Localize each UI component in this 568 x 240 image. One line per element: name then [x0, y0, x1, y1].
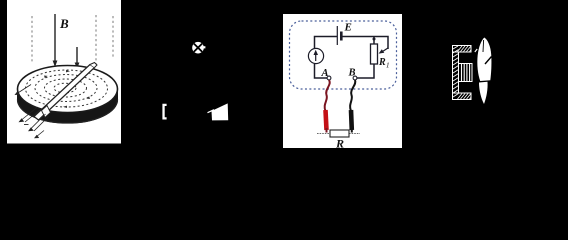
red probe	[326, 110, 327, 130]
resistor R leads	[317, 133, 330, 135]
blade inner split line	[482, 40, 485, 52]
svg-text:R: R	[335, 137, 344, 151]
hatching left bar	[453, 46, 459, 97]
core outline parts	[453, 46, 472, 100]
B-field dashed line left	[31, 16, 33, 62]
B-field arrow 1	[53, 14, 58, 67]
B-field arrow 2	[75, 47, 80, 69]
dashed eddy ring 4	[54, 83, 76, 93]
terminal B	[353, 76, 357, 80]
top wire left of battery	[315, 37, 338, 49]
B-field dashed line right	[112, 16, 114, 58]
figure 1 white panel	[7, 0, 121, 144]
lead wire 1	[19, 107, 41, 122]
wire B to rheostat	[357, 64, 374, 78]
pendulum blade upper lobe	[477, 38, 491, 82]
figure 3 white panel	[283, 14, 402, 148]
dashed boundary box	[290, 21, 397, 89]
figure 2 field-into-page symbol (white disc with X)	[192, 42, 205, 54]
galvanometer	[308, 48, 323, 63]
left wire below meter	[315, 64, 328, 78]
red test wire	[325, 80, 330, 111]
rod across disc	[34, 63, 97, 121]
blade notch	[485, 57, 492, 65]
dashed eddy ring 2	[35, 75, 97, 102]
rod side over rim	[42, 106, 51, 118]
black test wire	[350, 80, 355, 111]
svg-text:R: R	[378, 57, 386, 68]
figure 2 bracket shape	[162, 104, 166, 120]
lead wire 2	[28, 114, 49, 131]
rheostat top lead	[373, 37, 375, 45]
small minus tick	[24, 124, 29, 126]
rheostat R1	[371, 38, 389, 65]
disc top face	[18, 66, 118, 113]
pendulum blade lower lobe	[479, 82, 488, 104]
figure 4 electromagnet core	[453, 46, 473, 100]
disc side (cylinder band)	[18, 89, 118, 123]
svg-text:A: A	[321, 68, 329, 79]
dashed eddy ring 1	[26, 70, 108, 107]
svg-text:B: B	[59, 16, 69, 31]
battery E	[337, 26, 341, 45]
coil on middle limb	[459, 64, 473, 82]
ring current arrow marks	[44, 70, 90, 108]
top wire right of battery	[342, 36, 375, 38]
terminal A	[327, 76, 331, 80]
hatching arms	[458, 46, 472, 99]
bottom small arrow	[34, 131, 44, 139]
left rotation arrow	[15, 85, 32, 96]
circuit wires	[315, 37, 389, 79]
black probe	[349, 110, 354, 130]
dashed eddy ring 3	[45, 79, 87, 97]
resistor R body	[330, 130, 349, 137]
B-field dashed line mid-right	[95, 15, 97, 64]
svg-text:E: E	[344, 22, 352, 34]
svg-text:1: 1	[386, 62, 390, 70]
disc bottom rim	[18, 100, 118, 123]
svg-text:B: B	[348, 68, 356, 79]
figure 2 wedge shape	[208, 103, 229, 120]
small tick left of blade	[475, 49, 477, 52]
wiper bypass wire	[374, 37, 388, 50]
